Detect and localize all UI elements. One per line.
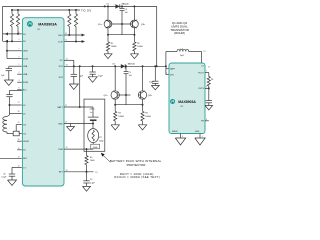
svg-text:C6: C6 [3, 174, 5, 176]
svg-text:10kΩ: 10kΩ [90, 160, 95, 162]
svg-text:100kΩ: 100kΩ [145, 116, 151, 118]
svg-text:7: 7 [206, 71, 207, 73]
svg-text:10μF: 10μF [98, 76, 103, 78]
svg-text:3: 3 [182, 136, 183, 138]
svg-text:12: 12 [18, 156, 20, 158]
svg-text:SYS: SYS [59, 77, 64, 79]
svg-text:7: 7 [19, 49, 20, 51]
svg-text:SHDN: SHDN [172, 131, 178, 133]
svg-text:TO 5V: TO 5V [81, 8, 92, 12]
svg-text:R5: R5 [90, 157, 92, 159]
svg-text:DOK: DOK [58, 41, 63, 43]
svg-text:+CELL: +CELL [89, 109, 96, 111]
svg-text:DCM: DCM [23, 58, 28, 60]
svg-text:28: 28 [18, 111, 20, 113]
svg-text:BAT540: BAT540 [122, 3, 130, 6]
svg-text:MAX8903A: MAX8903A [178, 100, 196, 104]
svg-text:22: 22 [65, 40, 67, 42]
svg-text:6: 6 [19, 32, 20, 34]
svg-text:23: 23 [65, 33, 67, 35]
svg-text:C4: C4 [125, 9, 127, 11]
svg-text:THM: THM [58, 149, 63, 151]
svg-text:1: 1 [114, 5, 115, 7]
svg-text:IDC: IDC [23, 90, 27, 92]
svg-text:25: 25 [18, 122, 20, 124]
svg-text:2,5: 2,5 [203, 51, 205, 53]
svg-text:5: 5 [19, 39, 20, 41]
svg-text:10kΩ: 10kΩ [99, 140, 104, 142]
svg-text:4: 4 [166, 73, 167, 75]
svg-text:6: 6 [206, 87, 207, 89]
svg-text:R2: R2 [137, 43, 139, 45]
svg-text:CHG: CHG [58, 35, 63, 37]
svg-text:BAT540: BAT540 [128, 63, 136, 66]
svg-text:27: 27 [18, 102, 20, 104]
svg-text:R1: R1 [111, 43, 113, 45]
svg-text:3: 3 [19, 80, 20, 82]
svg-text:USUS: USUS [23, 141, 29, 143]
svg-text:15: 15 [18, 148, 20, 150]
svg-text:C5: C5 [129, 72, 131, 74]
svg-text:OUTS: OUTS [198, 88, 204, 90]
svg-text:25: 25 [208, 67, 210, 69]
svg-text:BATT: BATT [170, 68, 176, 71]
svg-text:R3: R3 [118, 112, 120, 114]
svg-text:100kΩ: 100kΩ [118, 116, 124, 118]
svg-text:USB: USB [23, 66, 28, 68]
svg-text:BATT: BATT [58, 106, 64, 109]
svg-text:DC: DC [23, 41, 27, 43]
svg-text:SET: SET [59, 172, 64, 174]
svg-text:DC: DC [60, 60, 64, 62]
svg-text:CEN: CEN [23, 51, 28, 53]
svg-text:DC: DC [23, 34, 27, 36]
svg-text:C3: C3 [90, 179, 92, 181]
svg-text:10: 10 [18, 165, 20, 167]
svg-text:DIN: DIN [170, 74, 174, 76]
svg-text:1: 1 [19, 64, 20, 66]
svg-text:GND: GND [58, 123, 63, 125]
svg-text:MAX8903A: MAX8903A [38, 23, 57, 27]
svg-text:0.1μF: 0.1μF [90, 182, 96, 184]
svg-text:9: 9 [19, 56, 20, 58]
svg-text:9: 9 [202, 136, 203, 138]
svg-text:0.1μF: 0.1μF [1, 177, 7, 179]
svg-text:DC: DC [23, 150, 27, 152]
svg-text:2: 2 [19, 72, 20, 74]
svg-text:10μF: 10μF [149, 82, 154, 84]
svg-text:1: 1 [166, 67, 167, 69]
svg-text:8: 8 [206, 119, 207, 121]
svg-text:RCOLD = 4300Ω (SEE TEXT): RCOLD = 4300Ω (SEE TEXT) [114, 175, 160, 179]
svg-text:R4: R4 [145, 112, 147, 114]
svg-text:R6: R6 [211, 79, 213, 81]
svg-text:18: 18 [18, 139, 20, 141]
svg-text:10kΩ: 10kΩ [93, 147, 98, 149]
svg-text:SYS: SYS [59, 66, 64, 68]
svg-text:PROTECTOR: PROTECTOR [127, 163, 147, 167]
svg-text:100kΩ: 100kΩ [137, 46, 143, 48]
svg-text:8: 8 [19, 88, 20, 90]
svg-text:(ROHM): (ROHM) [174, 31, 185, 35]
svg-text:USB: USB [23, 74, 28, 76]
svg-text:IUSB: IUSB [23, 82, 28, 84]
svg-text:24: 24 [18, 131, 20, 133]
svg-text:2μH: 2μH [180, 55, 184, 57]
svg-text:GND: GND [195, 131, 200, 133]
svg-text:100kΩ: 100kΩ [111, 46, 117, 48]
svg-text:POUT: POUT [198, 72, 204, 74]
